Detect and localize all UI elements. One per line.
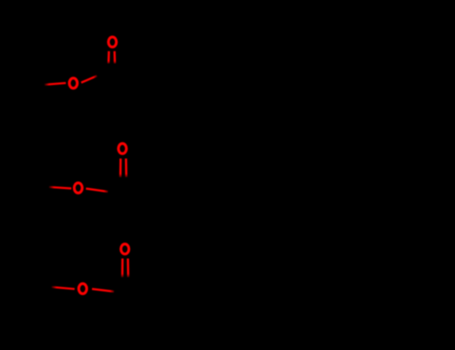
ester group 1: C=O double bond line left [107, 51, 110, 63]
ester group 1: O-C(=O) half bond (wire) [81, 76, 97, 83]
ester group 3: O-C(=O) half bond (wire) [92, 289, 114, 292]
ester group 1: C=O double bond line right [113, 51, 116, 63]
ester group 1: carbonyl oxygen label O [108, 37, 116, 47]
ester group 3: methyl C-O half bond (wire) [52, 287, 75, 289]
ester group 2: methyl C-O half bond (wire) [49, 187, 71, 188]
ester group 2: C=O double bond line left [119, 159, 121, 178]
ester group 1: ester oxygen label O [69, 78, 77, 88]
ester group 1: methyl C-O half bond (wire) [45, 83, 66, 85]
ester group 2: ester oxygen label O [74, 183, 82, 193]
ester group 3: ester oxygen label O [79, 284, 87, 294]
ester group 3: C=O double bond line right [127, 259, 129, 278]
ester group 2: carbonyl oxygen label O [118, 144, 126, 154]
ester group 2: O-C(=O) half bond (wire) [86, 189, 108, 192]
ester group 3: carbonyl oxygen label O [121, 244, 129, 254]
ester group 3: C=O double bond line left [121, 259, 123, 278]
ester group 2: C=O double bond line right [125, 159, 128, 178]
